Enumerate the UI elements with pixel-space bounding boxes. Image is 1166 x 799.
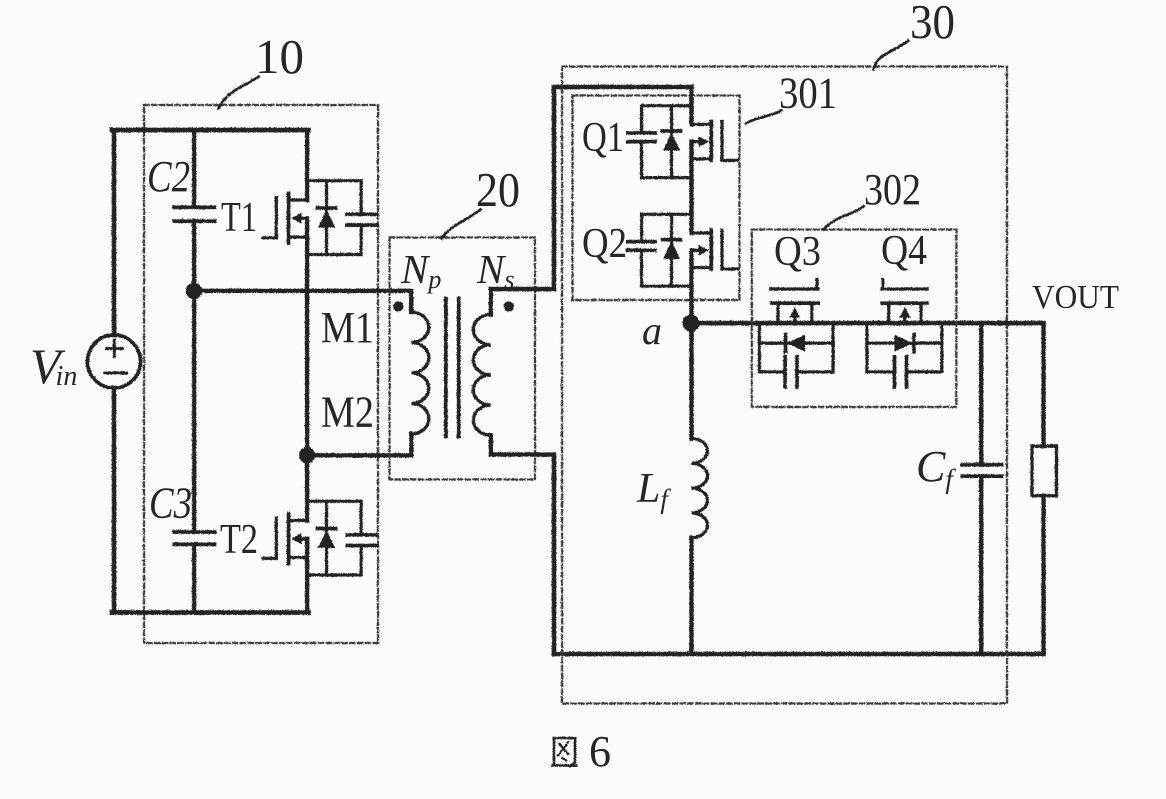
Q3 channel <box>771 301 817 305</box>
svg-text:VOUT: VOUT <box>1032 279 1119 316</box>
label 30 leader line <box>873 40 908 69</box>
svg-text:30: 30 <box>910 0 955 49</box>
transistor Q1 (MOSFET with body diode and capacitor) <box>627 87 737 233</box>
svg-text:20: 20 <box>476 162 520 217</box>
T1 drain stub <box>288 198 307 201</box>
Q4 channel <box>882 301 926 305</box>
T2 source stub <box>288 555 307 558</box>
node: secondary polarity dot <box>503 301 513 311</box>
dashed block 10 boundary <box>144 105 378 643</box>
wire: C3 to bottom rail <box>191 544 195 612</box>
T1 source stub <box>288 235 307 238</box>
Q3 drain stub <box>776 303 779 323</box>
wire: C2 to midpoint node <box>191 221 195 291</box>
Q1 drain stub <box>691 122 711 125</box>
Q1 source stub <box>691 157 711 160</box>
Q4 parasitic capacitor plates <box>894 356 906 386</box>
Q3 gate <box>770 279 818 289</box>
wire: secondary bottom to output return <box>490 454 553 654</box>
inductor Lf <box>689 323 693 438</box>
svg-text:Vin: Vin <box>30 338 77 394</box>
svg-text:Cf: Cf <box>916 442 956 494</box>
label 20 leader line <box>441 209 480 238</box>
svg-text:6: 6 <box>589 727 611 776</box>
dashed block 20 boundary (transformer) <box>389 237 535 479</box>
Q3 body diode <box>759 341 833 344</box>
T2 channel <box>286 514 290 564</box>
svg-text:Q1: Q1 <box>582 115 624 161</box>
Q2 parasitic capacitor plates <box>627 241 654 250</box>
wire: midpoint to primary top <box>194 288 411 292</box>
T1 channel <box>286 193 290 243</box>
T1 source wire down to T2 <box>304 218 308 520</box>
wire: node a to output <box>691 320 1043 325</box>
Q3 parasitic capacitor plates <box>785 356 797 386</box>
label 302 leader line <box>823 206 863 229</box>
T1 body arrow <box>296 216 307 219</box>
capacitor C3 <box>191 291 195 532</box>
transformer core <box>445 298 458 436</box>
Q4 gate <box>881 279 926 289</box>
Q2 body diode <box>669 214 672 286</box>
svg-text:M2: M2 <box>321 388 374 437</box>
T2 drain stub <box>288 518 307 521</box>
wire: switch midpoint to primary bottom <box>307 453 411 457</box>
T2 body arrow <box>296 537 307 540</box>
Q2 channel <box>709 230 713 269</box>
Q4 body diode <box>866 341 941 344</box>
chinese figure glyph <box>552 738 576 766</box>
T1 gate <box>263 197 276 237</box>
dashed block 302 boundary <box>751 229 956 407</box>
resistor load <box>1041 323 1045 446</box>
Q3 parallel network loop <box>759 323 833 372</box>
wire: left rail lower <box>111 388 116 613</box>
svg-text:Np: Np <box>400 246 441 294</box>
wire: output bottom rail <box>554 651 1044 656</box>
svg-text:M1: M1 <box>321 303 374 352</box>
transistor Q3 (bidirectional switch MOSFET) <box>759 279 833 387</box>
svg-text:C2: C2 <box>147 152 190 201</box>
svg-text:301: 301 <box>779 69 837 118</box>
T2 gate <box>263 518 276 558</box>
Q4 source stub <box>919 303 922 323</box>
Q1 body diode <box>669 105 672 177</box>
svg-text:T2: T2 <box>220 517 258 563</box>
node: switch midpoint junction dot <box>298 447 314 463</box>
capacitor Cf <box>979 323 983 464</box>
node: capacitor midpoint junction dot <box>185 282 201 298</box>
node a junction dot <box>682 314 699 331</box>
dashed block 301 boundary <box>572 95 739 300</box>
Q2 source stub <box>691 265 711 268</box>
svg-text:T1: T1 <box>221 195 257 241</box>
transistor T1 (MOSFET with body diode and capacitor) <box>263 130 377 521</box>
label 301 leader line <box>746 110 782 123</box>
svg-text:a: a <box>642 308 662 353</box>
transistor Q2 (MOSFET with body diode and capacitor) <box>627 214 737 323</box>
svg-text:Lf: Lf <box>636 466 671 514</box>
Q4 body arrow <box>903 313 906 323</box>
svg-text:C3: C3 <box>149 479 192 528</box>
transformer secondary winding Ns <box>488 289 492 314</box>
Q4 parallel network loop <box>866 323 941 372</box>
transformer primary winding Np <box>409 290 413 311</box>
Q3 body arrow <box>793 313 796 323</box>
T2 body diode <box>324 501 327 575</box>
Q2 source wire to node a <box>689 250 693 323</box>
Q2 drain stub <box>691 231 711 234</box>
voltage source Vin <box>87 335 140 388</box>
Q1 gate <box>722 121 737 160</box>
wire: bottom rail <box>112 610 309 615</box>
node: primary polarity dot <box>393 301 403 311</box>
T2 source wire to bottom rail <box>304 538 308 612</box>
Q1 drain wire <box>689 87 693 124</box>
svg-text:Q4: Q4 <box>881 228 927 274</box>
wire: top rail <box>112 127 309 132</box>
T1 drain wire <box>304 130 308 200</box>
svg-text:302: 302 <box>864 165 921 214</box>
wire: secondary top to rectifier <box>490 87 691 289</box>
Q2 body arrow <box>691 248 702 251</box>
T1 parallel network loop <box>307 180 361 254</box>
label 10 leader line <box>218 76 258 108</box>
T1 parasitic capacitor plates <box>347 214 377 225</box>
Q1 parallel network loop <box>641 105 691 177</box>
Q1 source wire down through Q2 <box>689 141 693 232</box>
wire: left rail upper <box>111 130 116 335</box>
T2 parallel network loop <box>307 501 361 575</box>
Q3 source stub <box>810 303 813 323</box>
svg-text:Q2: Q2 <box>582 221 627 267</box>
Q1 parasitic capacitor plates <box>627 133 654 142</box>
Q2 parallel network loop <box>641 214 691 286</box>
T2 parasitic capacitor plates <box>347 534 377 545</box>
transistor Q4 (bidirectional switch MOSFET) <box>866 279 941 387</box>
Q1 body arrow <box>691 140 702 143</box>
Q4 drain stub <box>887 303 890 323</box>
capacitor C2 <box>191 130 195 207</box>
Q2 gate <box>722 230 737 269</box>
T1 body diode <box>324 180 327 254</box>
svg-text:Q3: Q3 <box>774 229 821 275</box>
dashed block 30 boundary <box>562 66 1007 703</box>
svg-text:Ns: Ns <box>476 246 514 294</box>
transistor T2 (MOSFET with body diode and capacitor) <box>263 501 377 612</box>
svg-text:10: 10 <box>255 29 304 84</box>
Q1 channel <box>709 121 713 160</box>
